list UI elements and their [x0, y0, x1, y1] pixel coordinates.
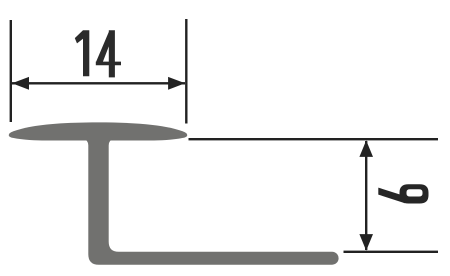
bottom extension line of 9 dimension: [344, 251, 439, 253]
bottom arrowhead (down): [359, 234, 373, 251]
dimension text 9 (rotated 90 degrees) : tail: [378, 188, 405, 204]
left extension line of 14 dimension: [10, 20, 12, 122]
profile flange (top cap): [9, 122, 187, 140]
top extension line of 9 dimension: [189, 138, 439, 140]
left arrowhead: [12, 77, 29, 90]
profile stem and bottom leg: [83, 139, 338, 265]
horizontal dimension line 14: [12, 82, 185, 84]
vertical dimension line 9: [365, 141, 367, 250]
dimension text 14 : digit 1: [75, 30, 90, 76]
top arrowhead (up): [359, 140, 373, 157]
right extension line of 14 dimension: [185, 19, 187, 124]
right arrowhead: [168, 77, 185, 90]
dimension text 14 : digit 4: [96, 30, 121, 77]
dimension text 9 (rotated 90 degrees) : bowl: [400, 184, 429, 203]
